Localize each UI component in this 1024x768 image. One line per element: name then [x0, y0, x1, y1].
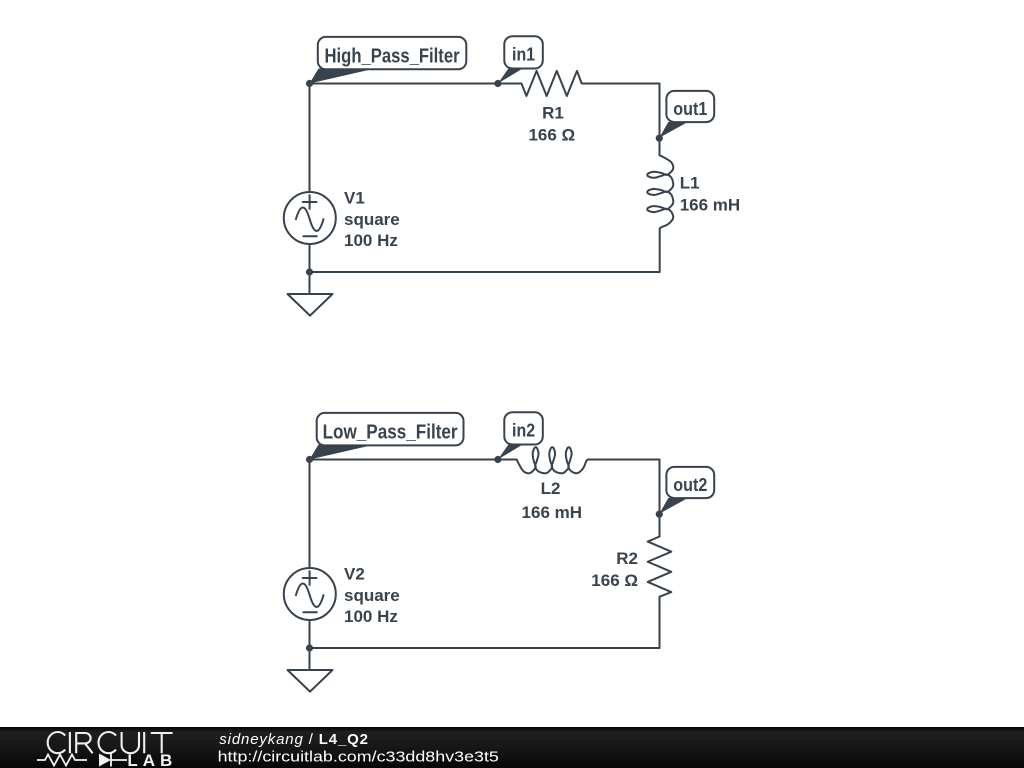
svg-text:square: square [344, 586, 400, 605]
svg-text:R1: R1 [542, 104, 564, 123]
svg-text:166 mH: 166 mH [522, 503, 582, 522]
svg-text:http://circuitlab.com/c33dd8hv: http://circuitlab.com/c33dd8hv3e3t5 [218, 749, 499, 766]
svg-text:V1: V1 [344, 188, 365, 207]
svg-text:V2: V2 [344, 564, 365, 583]
svg-text:L2: L2 [541, 479, 561, 498]
svg-text:166 Ω: 166 Ω [591, 571, 638, 590]
svg-text:Low_Pass_Filter: Low_Pass_Filter [323, 420, 458, 443]
svg-text:square: square [344, 210, 400, 229]
svg-text:100 Hz: 100 Hz [344, 607, 398, 626]
svg-text:sidneykang / L4_Q2: sidneykang / L4_Q2 [219, 731, 369, 748]
svg-text:in1: in1 [512, 45, 535, 65]
svg-text:100 Hz: 100 Hz [344, 231, 398, 250]
svg-text:out1: out1 [673, 99, 707, 119]
svg-text:166 Ω: 166 Ω [528, 125, 575, 144]
svg-text:out2: out2 [673, 475, 707, 495]
svg-text:LAB: LAB [127, 751, 177, 768]
svg-text:R2: R2 [616, 549, 638, 568]
svg-text:L1: L1 [680, 174, 700, 193]
svg-text:166 mH: 166 mH [680, 196, 740, 215]
svg-text:in2: in2 [512, 421, 535, 441]
svg-text:High_Pass_Filter: High_Pass_Filter [325, 44, 460, 67]
